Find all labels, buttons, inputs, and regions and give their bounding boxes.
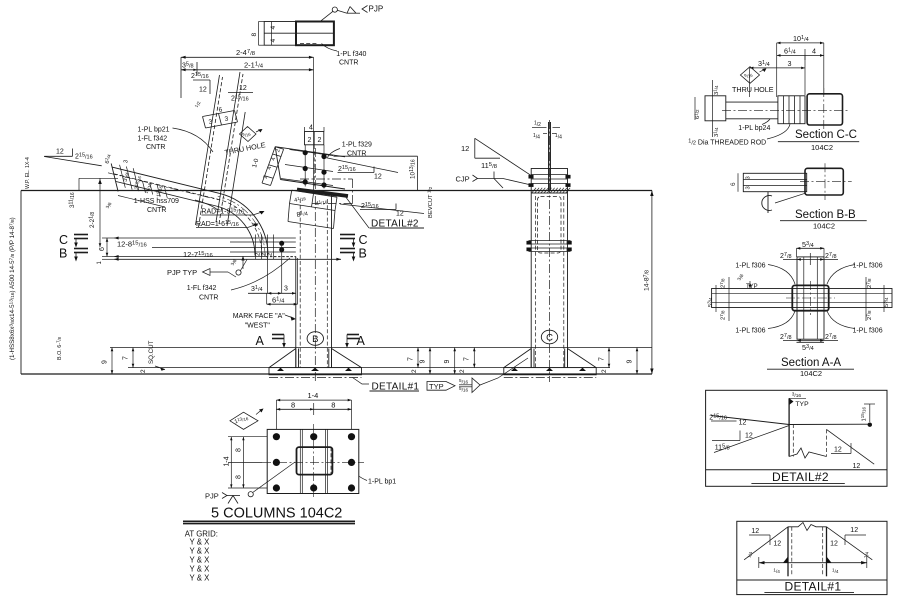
svg-text:12: 12 [834, 447, 842, 454]
svg-text:9: 9 [102, 360, 109, 364]
column 2 mid splice bands [529, 240, 571, 242]
svg-text:C: C [359, 233, 368, 247]
svg-text:12: 12 [745, 433, 753, 440]
svg-text:12: 12 [751, 528, 759, 535]
detail 1 column lines [787, 527, 789, 577]
svg-text:C: C [546, 333, 553, 344]
dim 3 11/16 vertical [79, 177, 118, 179]
svg-text:W.P. EL. 1X-4: W.P. EL. 1X-4 [25, 157, 31, 189]
slope triangle 2 15/16 / 12 right of elbow upper [338, 172, 375, 174]
svg-text:12: 12 [739, 420, 747, 427]
svg-text:1-PL f329: 1-PL f329 [342, 142, 372, 149]
section B-B plate bar [743, 173, 806, 191]
column C2 centerline [549, 120, 551, 382]
svg-text:1-PL f306: 1-PL f306 [853, 327, 883, 334]
svg-text:1-PL bp1: 1-PL bp1 [368, 479, 396, 486]
svg-text:B: B [59, 247, 67, 261]
svg-text:12: 12 [56, 149, 64, 156]
top plate dims 8 / 4 / 4 [271, 22, 273, 46]
svg-text:MARK FACE "A": MARK FACE "A" [233, 313, 286, 320]
svg-text:14-87/8: 14-87/8 [643, 270, 651, 291]
svg-text:2-21/8: 2-21/8 [88, 212, 96, 228]
svg-text:B: B [312, 334, 318, 345]
detail 2 boundary dash-dot [300, 178, 353, 180]
svg-text:B: B [359, 247, 367, 261]
boxed tick 8 1/4 [288, 222, 334, 229]
svg-text:2: 2 [411, 369, 418, 373]
weld diamond 9/16 C-C [740, 67, 759, 84]
top dim 3 5/8 and 2-1 1/4 [181, 69, 314, 71]
svg-text:1-4: 1-4 [308, 391, 319, 400]
arm bottom edge [116, 182, 216, 207]
base plate top line y=367.6 [128, 367, 610, 369]
slope triangle 12 / 2 15/16 upper-right [228, 92, 253, 94]
svg-text:8: 8 [251, 33, 258, 37]
svg-text:8: 8 [236, 475, 243, 479]
splice plate left end cut [275, 147, 280, 180]
svg-text:Y & X: Y & X [190, 538, 211, 547]
svg-text:9: 9 [420, 360, 427, 364]
section C-C rod shank [726, 101, 778, 103]
svg-text:1-PL f306: 1-PL f306 [735, 327, 765, 334]
bolt columns [304, 145, 306, 187]
slope triangle 12 / 2 15/16 upper-left [193, 79, 210, 81]
dim 7 left of column 1 [132, 348, 134, 368]
arm lower dim ticks [142, 181, 145, 193]
svg-text:12: 12 [199, 87, 207, 94]
weld marks on base 2 [511, 368, 518, 371]
shim pack thick band [297, 190, 348, 197]
svg-text:DETAIL#1: DETAIL#1 [785, 580, 842, 594]
svg-text:2: 2 [140, 369, 147, 373]
threaded rod column 2 [548, 122, 550, 190]
grout hatch under cap [532, 188, 537, 193]
svg-text:7: 7 [123, 356, 130, 360]
detail 1 break line top [788, 523, 827, 531]
column C1 right edge [331, 194, 333, 368]
detail 2 column line [788, 398, 790, 456]
svg-text:1-PL bp24: 1-PL bp24 [738, 125, 770, 132]
svg-text:Y & X: Y & X [190, 547, 211, 556]
column 1 gusset left [269, 349, 296, 368]
svg-text:1-PL bp21: 1-PL bp21 [138, 127, 170, 134]
svg-text:3: 3 [746, 186, 752, 189]
bend centerline arc [218, 196, 265, 257]
section C-C dims 10 1/4 [777, 42, 824, 44]
svg-text:B.O. 6-7/8: B.O. 6-7/8 [56, 336, 63, 360]
anchor bolts [273, 433, 280, 440]
svg-text:Y & X: Y & X [190, 574, 211, 583]
boxed ticks 2 4 4 2 [262, 147, 275, 183]
svg-text:TYP: TYP [746, 284, 758, 290]
column 2 cap assembly [531, 169, 567, 194]
dims 7/9/2 right of column 1 [417, 348, 419, 368]
svg-text:27/8: 27/8 [719, 310, 726, 320]
dim 9 left of column 1 [111, 348, 113, 375]
arm top edge [112, 167, 219, 193]
detail 2 hidden edge [826, 429, 828, 456]
svg-text:2: 2 [318, 137, 322, 144]
svg-text:THRU HOLE: THRU HOLE [732, 85, 774, 94]
splice plate f329 bottom edge [281, 180, 346, 190]
svg-text:RAD=1-915/16: RAD=1-915/16 [201, 208, 244, 216]
bend inner arc RAD 1-6 15/16 [216, 206, 255, 256]
bolts at splice [303, 150, 308, 155]
detail 1 frame [737, 521, 887, 594]
dim lines 12-8 15/16 / 12-7 15/16 [114, 237, 296, 239]
top plate detail HSS part [296, 22, 334, 46]
svg-text:9: 9 [444, 360, 451, 364]
splice plate f329 top edge [275, 147, 345, 157]
svg-text:CNTR: CNTR [146, 144, 165, 151]
svg-text:311/16: 311/16 [68, 192, 76, 208]
svg-text:PJP: PJP [205, 492, 219, 501]
svg-text:115/16: 115/16 [860, 406, 867, 421]
boxed ticks 2 2 2 [255, 235, 257, 260]
svg-text:CNTR: CNTR [147, 207, 166, 214]
PJP weld flag top [332, 7, 337, 12]
plan HSS wall lines [299, 429, 301, 493]
svg-text:53/4: 53/4 [707, 297, 714, 307]
section A-A vertical plate [797, 257, 824, 339]
svg-text:104C2: 104C2 [800, 369, 822, 378]
slope triangle 12 / 2 15/16 far left [44, 155, 72, 157]
svg-text:C: C [59, 233, 68, 247]
svg-text:6: 6 [730, 182, 737, 186]
section C-C dims 6 1/4 | 4 [777, 54, 824, 56]
svg-text:4: 4 [270, 39, 277, 43]
column mark B circled [307, 332, 323, 346]
column mark C circled [541, 330, 557, 344]
svg-text:12: 12 [239, 85, 247, 92]
svg-text:TYP: TYP [795, 401, 809, 408]
svg-text:31/4: 31/4 [713, 85, 720, 95]
svg-text:7: 7 [599, 357, 606, 361]
column 2 gusset right [568, 349, 597, 368]
svg-text:3: 3 [284, 286, 288, 293]
svg-text:Section C-C: Section C-C [795, 129, 857, 141]
section B-B weld symbol [762, 196, 772, 211]
svg-text:1-PL f340: 1-PL f340 [336, 51, 366, 58]
dim 10 13/16 rotated [334, 155, 418, 157]
svg-text:12: 12 [396, 211, 404, 218]
column C1 left edge [295, 257, 297, 368]
svg-text:1-FL f342: 1-FL f342 [138, 136, 168, 143]
column 2 gusset left [504, 349, 531, 368]
dims 7/9/2 right of column 2 [608, 348, 610, 368]
svg-text:2: 2 [601, 369, 608, 373]
svg-text:9: 9 [627, 360, 634, 364]
section A-A HSS core [792, 285, 828, 310]
detail 1 weld triangles [783, 557, 788, 563]
detail 2 frame [706, 390, 887, 486]
svg-text:BEVCUT 1/2: BEVCUT 1/2 [427, 186, 434, 218]
arm end tick marks [120, 165, 126, 188]
column 1 gusset right [332, 349, 362, 368]
main view border / W.P. line [21, 190, 652, 192]
top plate detail left part [264, 22, 296, 46]
svg-text:27/8: 27/8 [866, 310, 873, 320]
section C-C end plate bp24 [705, 96, 726, 121]
svg-text:27/8: 27/8 [719, 278, 726, 288]
section B-B HSS block [805, 168, 843, 195]
boxed ticks 4 1/16 | 4 1/16 [292, 190, 337, 197]
svg-text:4: 4 [270, 26, 277, 30]
dims 9/7/2 left of column 2 [454, 348, 456, 375]
flange cut line at bend bottom [266, 256, 296, 258]
section C-C nut and washers [778, 96, 805, 124]
plan weld diamond 1 13/16 [230, 412, 258, 429]
svg-text:7: 7 [408, 357, 415, 361]
svg-text:104C2: 104C2 [811, 143, 833, 152]
svg-text:4: 4 [812, 47, 816, 56]
svg-text:1-PL f306: 1-PL f306 [735, 263, 765, 270]
svg-text:1-FL f342: 1-FL f342 [187, 285, 217, 292]
svg-text:Section A-A: Section A-A [781, 357, 841, 369]
boxed dim 3|3 on plate [203, 111, 235, 117]
svg-text:8: 8 [331, 401, 335, 410]
weld diamond 9/16 [240, 127, 257, 142]
svg-text:6: 6 [99, 247, 106, 251]
flange plate steep lines [196, 75, 220, 225]
slope triangle 2 15/16 / 12 to DETAIL#2 [360, 209, 396, 211]
svg-text:A: A [256, 334, 265, 348]
ground line at y=347.5 [110, 347, 652, 349]
svg-text:8: 8 [291, 401, 295, 410]
svg-text:CJP: CJP [456, 175, 470, 184]
column C1 hidden walls [299, 199, 301, 368]
svg-text:12: 12 [461, 144, 469, 153]
svg-text:PJP: PJP [369, 5, 384, 14]
column C2 edges [530, 194, 532, 368]
detail 2 break line [789, 448, 826, 458]
svg-text:8: 8 [236, 448, 243, 452]
svg-text:Y & X: Y & X [190, 556, 211, 565]
detail 1 left hypotenuse [744, 527, 788, 560]
svg-text:104C2: 104C2 [813, 221, 835, 230]
section C-C dims 3 1/4 | 3 [750, 67, 805, 69]
section C-C HSS block [807, 94, 842, 125]
svg-text:CNTR: CNTR [199, 295, 218, 302]
top dim 2-4 7/8 [181, 56, 314, 58]
detail 1 right hypotenuse [827, 527, 873, 560]
svg-text:(1-HSS8x6x3/8x14-513/16) A500: (1-HSS8x6x3/8x14-513/16) A500 14-57/8 (P… [8, 217, 16, 360]
svg-text:SQ.CUT: SQ.CUT [148, 340, 155, 364]
plan HSS outline [297, 447, 333, 475]
svg-text:CNTR: CNTR [339, 60, 358, 67]
svg-text:TYP: TYP [429, 382, 444, 391]
column 2 inner sleeve hidden [538, 197, 562, 254]
dim 6 1/4 below bend [267, 303, 298, 305]
base plate plan outline [267, 429, 359, 493]
column 2 base plate [504, 368, 596, 375]
top plate section 4/2|2 [305, 132, 324, 145]
detail 2 left triangle 12 / 11 5/8 [739, 431, 741, 441]
dim 3 1/4 | 3 below bend [248, 292, 296, 294]
svg-text:RAD=1-615/16: RAD=1-615/16 [196, 220, 239, 228]
svg-text:DETAIL#2: DETAIL#2 [772, 470, 829, 484]
svg-text:1-PL f306: 1-PL f306 [853, 263, 883, 270]
dim 6 left [106, 238, 108, 257]
base 1 hidden line [269, 377, 362, 379]
svg-text:31/4: 31/4 [713, 127, 720, 137]
svg-text:7: 7 [464, 357, 471, 361]
arm centerline [108, 173, 219, 200]
svg-text:12: 12 [830, 541, 838, 548]
svg-text:"WEST": "WEST" [245, 323, 271, 330]
svg-text:2: 2 [308, 137, 312, 144]
section C-C dim extension lines [749, 68, 751, 97]
base 2 hidden line [504, 377, 596, 379]
detail 2 right triangle 12 12 [827, 429, 875, 464]
svg-text:Section B-B: Section B-B [795, 209, 856, 221]
dim 2-2 1/8 vertical [99, 178, 101, 247]
svg-text:PJP TYP: PJP TYP [167, 268, 197, 277]
dim extension line to work point [313, 57, 315, 190]
column C2 hidden walls [535, 196, 537, 368]
section A-A centerlines [809, 281, 811, 315]
bolt rows on splice [290, 150, 334, 156]
svg-text:5 COLUMNS 104C2: 5 COLUMNS 104C2 [211, 506, 342, 522]
svg-text:1-4: 1-4 [224, 456, 231, 466]
svg-text:1/2 Dia THREADED ROD: 1/2 Dia THREADED ROD [688, 139, 766, 147]
bend outer arc RAD 1-9 15/16 [219, 193, 268, 255]
overall height dim 14-8 7/8 [651, 191, 653, 375]
arm hidden wall [114, 174, 218, 199]
svg-text:27/8: 27/8 [866, 278, 873, 288]
svg-text:3: 3 [746, 176, 752, 179]
slope triangle 12 / 11 5/8 at CJP [474, 138, 476, 158]
svg-text:1-HSS hss709: 1-HSS hss709 [134, 198, 179, 205]
svg-text:12: 12 [853, 463, 861, 470]
svg-text:Y & X: Y & X [190, 565, 211, 574]
plan centerline [262, 461, 364, 463]
column 1 base plate [269, 368, 362, 375]
column C1 centerline [314, 148, 316, 382]
svg-text:3: 3 [788, 59, 792, 68]
section B-B dims 6 / 3 / 3 [737, 173, 739, 191]
plan left dims 8 / 8 / 1-4 [242, 437, 244, 488]
bend hidden arc [218, 199, 262, 255]
svg-text:12: 12 [374, 174, 382, 181]
svg-text:4: 4 [309, 125, 313, 132]
weld marks on base 1 [277, 368, 284, 371]
detail 1 weld line [759, 562, 867, 564]
svg-text:12: 12 [850, 527, 858, 534]
svg-text:2: 2 [459, 369, 466, 373]
section A-A horizontal plate [712, 289, 892, 308]
svg-text:12: 12 [773, 541, 781, 548]
svg-text:A: A [357, 334, 366, 348]
detail 2 right member line [789, 423, 870, 425]
detail 2 sloping member [711, 416, 789, 425]
arm end cut [111, 164, 118, 192]
